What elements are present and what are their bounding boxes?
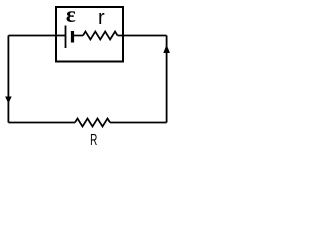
- wire: top-right horizontal segment: [118, 35, 167, 37]
- battery cell: long plate (positive terminal): [65, 26, 67, 49]
- wire: battery to resistor r: [74, 35, 83, 37]
- battery cell: short thick plate (negative terminal): [71, 31, 74, 43]
- svg-text:ε: ε: [66, 2, 76, 27]
- battery box (enclosure rectangle): [56, 7, 123, 62]
- current arrow on left wire (pointing down): [5, 97, 12, 104]
- wire: bottom-right horizontal segment: [110, 122, 167, 124]
- resistor R (zigzag): [75, 119, 110, 127]
- current arrow on right wire (pointing up): [163, 45, 170, 54]
- resistor r (zigzag, internal resistance): [83, 32, 118, 40]
- wire: right vertical segment: [166, 36, 168, 123]
- wire: bottom-left horizontal segment: [8, 122, 75, 124]
- wire: left vertical segment: [7, 36, 9, 123]
- wire: top-left horizontal segment: [8, 35, 65, 37]
- svg-text:R: R: [90, 132, 97, 149]
- svg-text:r: r: [98, 7, 105, 29]
